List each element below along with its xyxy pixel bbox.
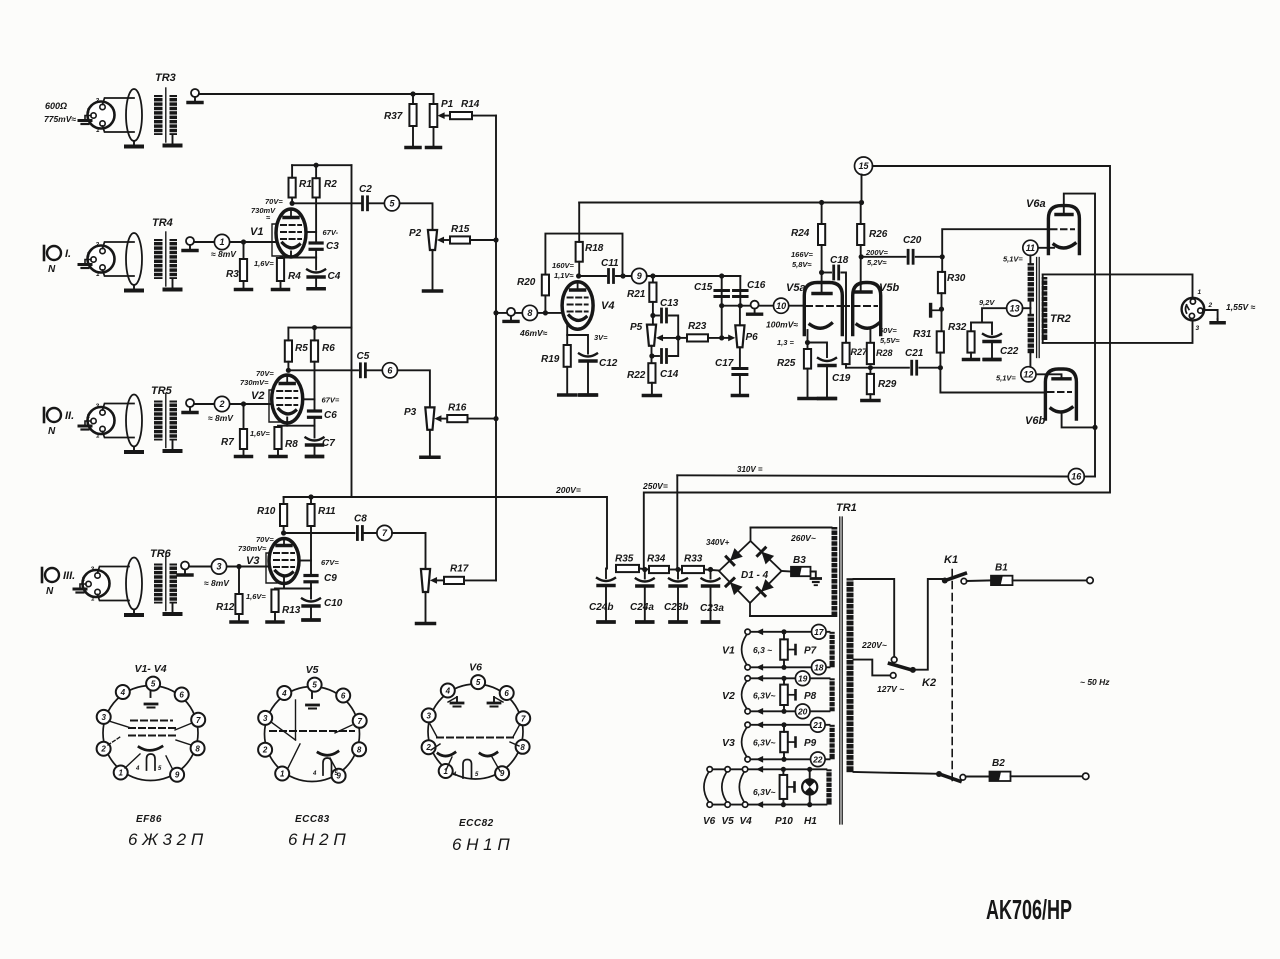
tube V5a [786,282,842,335]
potentiometer P7 [780,639,816,659]
svg-text:730mV=: 730mV= [240,378,269,387]
svg-text:C15: C15 [694,282,713,293]
wire H1 leads [809,769,811,779]
wire V4 anode to C11 [579,275,606,277]
wire R5 top lead [287,328,289,341]
svg-text:R18: R18 [585,243,604,254]
arrow heater V2 top [756,675,763,682]
svg-text:C21: C21 [905,348,924,359]
wire R3 lead [243,242,245,259]
svg-text:R3: R3 [226,269,239,280]
svg-text:C23a: C23a [700,603,724,614]
transformer TR1 heater winding V3 [830,725,835,760]
wire V1 screen [306,231,317,233]
wire node9 rail [647,275,741,277]
capacitor C18 [830,255,849,279]
capacitor C4 [307,258,341,289]
wire V3 screen [299,560,312,562]
wire R21 leads [652,276,654,283]
svg-text:21: 21 [812,720,823,730]
svg-text:C18: C18 [830,255,849,266]
svg-text:R34: R34 [647,554,666,565]
svg-text:1,55V ≈: 1,55V ≈ [1226,302,1256,312]
wire R32 lead [970,323,972,332]
contact 127V [890,673,896,679]
svg-text:P6: P6 [746,332,759,343]
svg-text:~ 50 Hz: ~ 50 Hz [1080,677,1110,687]
svg-text:1: 1 [96,271,100,278]
wire node10 line [722,305,805,307]
wire 127V tap [854,660,891,676]
text 220V [861,640,887,650]
terminal with ground node10 [748,301,762,315]
text 8mV input I [211,249,237,259]
transformer TR2 core [1037,258,1040,358]
svg-text:100mV≈: 100mV≈ [766,320,798,330]
resistor R28 [867,343,893,364]
svg-text:3: 3 [1196,325,1200,332]
text 340V [706,538,730,547]
wire P6 top lead [739,306,741,326]
svg-text:1: 1 [280,770,285,779]
node 15 [855,157,873,175]
wire R37 bottom lead [412,126,414,147]
svg-text:K1: K1 [944,554,958,566]
wire node15 to 250V corner [644,166,1110,570]
grid dashes V5 link [843,305,877,307]
text TR1 [836,502,857,514]
text 166V V5a [791,250,814,269]
wiper P7 [788,645,796,654]
socket V5 ECC83 [258,664,367,783]
svg-text:250V=: 250V= [642,481,668,491]
svg-text:8: 8 [357,745,362,754]
svg-text:R28: R28 [876,348,893,358]
wire B+ rail V4 V5 [579,202,861,204]
node 19 [795,671,810,686]
svg-text:6: 6 [504,689,509,698]
svg-text:V6: V6 [469,662,482,674]
wire P9 bottom lead [783,752,785,759]
svg-text:19: 19 [798,673,808,683]
wire cathode feedback rail [846,367,909,369]
wire C5 to node6 [365,369,382,371]
svg-text:20: 20 [797,706,808,716]
wire V1 anode supply rail [292,164,351,166]
svg-text:3: 3 [96,98,100,105]
wire V6a cathode to node11 [1038,247,1054,249]
fuse B3 [791,555,811,576]
svg-text:67V=: 67V= [322,396,340,405]
svg-text:R13: R13 [282,605,301,616]
ground P2 [424,250,442,291]
wire R23 left lead [678,337,687,339]
arrow pilot bottom [756,801,763,808]
wire bridge to B3 [782,570,792,573]
text 6N1P [452,835,510,854]
wire R7 lead [243,404,245,429]
wire heater row V2 top [748,677,830,679]
potentiometer P9 [780,732,816,752]
resistor R21 [627,283,657,302]
wire TR3 secondary to R37 node [199,93,413,95]
text 46mV [519,328,548,338]
text 67V V3 screen [321,558,339,567]
wiper P6 [723,335,736,342]
svg-text:10: 10 [776,301,786,311]
wire P7 top lead [783,632,785,640]
junction R6 top [312,325,317,330]
svg-text:15: 15 [858,161,869,171]
svg-text:C2: C2 [359,184,372,195]
cathode V5a [810,324,832,329]
wire C15 bottom to R23 [721,306,723,338]
junction V1 anode [290,201,295,206]
terminal heater V3 bottom [745,757,750,762]
wire 220V tap [854,579,895,657]
svg-text:4: 4 [445,686,451,695]
shield box V3 [266,553,277,583]
svg-text:1,1V≈: 1,1V≈ [554,271,574,280]
wire P10 leads [782,769,784,775]
wire P9 top lead [783,725,785,732]
svg-text:260V~: 260V~ [790,533,816,543]
wire 310V line [677,475,1068,476]
svg-text:B2: B2 [992,758,1005,769]
junction V5a cathode [805,340,810,345]
wire C11 to node9 [616,275,632,277]
wire 310V down to C23b [676,475,678,569]
wire C17 to ground [739,375,741,396]
svg-text:6,3V~: 6,3V~ [753,690,775,700]
arrow heater V2 bottom [756,708,763,715]
svg-text:18: 18 [814,662,824,672]
junction bus R16 [493,416,498,421]
svg-text:V5a: V5a [786,282,806,294]
junction V4 anode [576,273,581,278]
text K2 [922,677,936,689]
node 8 [522,305,537,320]
tube V4 [562,282,614,330]
ground R25 [799,369,816,399]
text 50Hz [1080,677,1110,687]
wire C21 right lead [919,367,940,369]
text 70V V2 anode [256,369,274,378]
resistor R34 [647,554,669,574]
wire R10 top lead [283,497,285,504]
junction R30 top [940,254,945,259]
svg-text:1,6V=: 1,6V= [246,592,266,601]
wire R2 top lead [315,165,317,178]
junction H1 bottom [807,802,812,807]
wire TR2 secondary loop top [1043,274,1193,297]
wire R31 to V6b grid [940,353,1045,393]
wire V2 anode to C5 [288,369,358,371]
switch K1 lever [942,573,967,584]
svg-text:N: N [48,264,56,275]
svg-text:70V=: 70V= [256,535,274,544]
tube V1 [250,209,306,257]
wire cathode to C19 [808,343,828,358]
svg-text:730mV≈: 730mV≈ [238,544,267,553]
junction C16 node10 [738,303,743,308]
svg-text:46mV≈: 46mV≈ [519,328,548,338]
svg-text:V5b: V5b [879,282,899,294]
wire R18 top lead [578,203,580,242]
svg-text:TR1: TR1 [836,502,857,514]
wire heater row V2 bottom [748,710,830,712]
wire C13 right lead [669,316,678,338]
wire H1 bottom lead [809,795,811,805]
svg-text:C12: C12 [599,358,618,369]
wire R17 to bus [464,579,496,581]
ground P4 [417,592,435,624]
tube V3 [246,539,299,584]
svg-text:340V+: 340V+ [706,538,730,547]
svg-text:9: 9 [637,271,642,281]
svg-text:P5: P5 [630,322,643,333]
svg-text:R26: R26 [869,229,888,240]
wire V2 cathode stem [286,418,288,426]
cathode V6b [1051,408,1072,413]
resistor R3 [226,259,247,281]
svg-text:P9: P9 [804,738,817,749]
connector XLR input I [79,242,134,279]
resistor R16 [447,403,467,423]
transformer TR1 pilot winding [826,769,831,804]
svg-text:V3: V3 [722,737,735,749]
svg-text:C10: C10 [324,598,343,609]
svg-text:V2: V2 [722,690,735,702]
svg-text:4: 4 [312,771,317,777]
text 6,3V pilot [753,787,775,797]
text 3V V4 cathode [594,333,608,342]
junction R3 top [241,239,246,244]
capacitor C17 [715,358,747,375]
svg-text:ECC82: ECC82 [459,818,494,829]
ground C23b [670,620,686,624]
cathode V5b [857,324,879,329]
ground R32 [964,353,979,360]
resistor R35 [615,554,639,573]
svg-text:2: 2 [86,108,91,115]
wire P5 to R22 [651,346,653,363]
svg-text:C24a: C24a [630,602,654,613]
svg-text:R29: R29 [878,379,897,390]
svg-text:AK706/HP: AK706/HP [986,894,1072,925]
text K1 [944,554,958,566]
svg-text:R32: R32 [948,322,967,333]
wire B1 to terminal [1013,579,1087,581]
ground R19 [559,367,576,395]
svg-text:R1: R1 [299,179,312,190]
wire R27 bottom lead [845,364,847,368]
junction P7 top [781,629,786,634]
text 8mV input III [204,578,230,588]
wire 200V rail [284,497,607,569]
lamp H1 [802,779,817,794]
svg-text:166V=: 166V= [791,250,814,259]
svg-text:R10: R10 [257,506,276,517]
wire V4 cathode split [567,324,588,354]
anode V6b [1053,377,1070,380]
svg-text:5: 5 [151,680,156,689]
resistor R6 [311,340,335,361]
svg-text:4: 4 [452,772,457,778]
svg-text:V2: V2 [251,390,264,402]
arrow heater V3 top [756,721,763,728]
transformer TR6 [126,548,181,615]
svg-text:V1- V4: V1- V4 [134,663,166,675]
svg-text:ECC83: ECC83 [295,814,330,825]
svg-text:R19: R19 [541,354,560,365]
wiper P8 [788,690,796,699]
svg-text:127V ~: 127V ~ [877,684,904,694]
ground P3 [421,430,439,457]
svg-text:70V=: 70V= [256,369,274,378]
svg-text:8: 8 [527,308,532,318]
wire P8 top lead [783,678,785,684]
transformer TR2 primary [1028,263,1071,367]
wire C8 to node7 [362,532,377,534]
text 70V V1 anode [265,197,283,206]
wire R24 top lead [821,203,823,225]
wire V2 cathode [278,425,315,427]
resistor R17 [444,564,469,585]
svg-text:V6a: V6a [1026,198,1046,210]
wire B2 to terminal [1011,775,1083,777]
terminal B1 [1087,577,1093,583]
wire node13 to winding [1023,307,1031,309]
ground R37 [406,147,420,148]
text 6,3V V3 [753,738,775,748]
wire TR2 secondary loop bottom [1043,320,1193,343]
wire P8 bottom lead [783,705,785,711]
svg-text:B1: B1 [995,563,1008,574]
ground R8 [270,449,286,457]
text 5,1V node12 [996,374,1016,383]
svg-text:C7: C7 [322,438,335,449]
junction R23 left [676,335,681,340]
wire P1 bottom lead [433,127,435,147]
potentiometer P8 [780,685,816,705]
contact 220V [891,657,897,663]
junction R28 bottom [868,365,873,370]
svg-text:≈ 8mV: ≈ 8mV [204,578,230,588]
wire node7 to P4 [392,533,425,569]
wire C15 branch [721,276,723,306]
svg-text:C5: C5 [357,351,370,362]
junction V6b cathode bus [1092,425,1097,430]
shield box V1 [272,224,283,256]
microphone input II symbol [44,408,74,437]
resistor R7 [221,429,247,449]
wire R11 to screen and C9 [310,526,312,575]
node 1 [214,234,229,249]
svg-text:C19: C19 [832,373,851,384]
node 2 [214,396,229,411]
capacitor C21 [905,348,924,374]
svg-text:V1: V1 [250,226,263,238]
svg-text:P7: P7 [804,646,817,657]
socket V6 ECC82 [422,662,531,781]
wire C14 left lead [652,355,659,357]
wire heater row V1 bottom [748,666,830,668]
svg-text:C14: C14 [660,369,679,380]
svg-text:3: 3 [263,714,268,723]
svg-text:2: 2 [100,745,106,754]
resistor R12 [216,594,243,614]
wire B2 lever to fuse [966,776,990,778]
svg-text:TR4: TR4 [152,217,173,229]
svg-text:R7: R7 [221,437,234,448]
transformer TR5 [126,385,181,452]
wire V1 anode to C2 [292,202,361,204]
svg-text:R14: R14 [461,99,480,110]
svg-text:C24b: C24b [589,602,613,613]
text EF86 [136,814,162,825]
junction V2 anode [286,368,291,373]
capacitor C10 [302,589,343,621]
svg-text:R2: R2 [324,179,337,190]
ground output [1211,319,1224,323]
text 1,6V V2 cathode [250,429,270,438]
wire V3 cathode stem [283,578,285,589]
svg-text:6,3 ~: 6,3 ~ [753,645,772,655]
wire K2 to K1 [913,579,945,670]
junction bus R15 [493,237,498,242]
transformer TR3 [126,72,181,147]
svg-text:C16: C16 [747,280,766,291]
arrow heater V1 top [756,628,763,635]
junction R20 bottom [543,310,548,315]
ground R13 [267,612,283,622]
junction P8 top [781,676,786,681]
terminal with ground TR4 output [183,237,197,251]
resistor R27 [842,343,868,364]
text 250V rail [642,481,668,491]
svg-text:N: N [46,586,54,597]
svg-text:R24: R24 [791,228,810,239]
wire R23 right lead [708,337,723,339]
wire V1 cathode stem [290,252,292,258]
wire K1 to B1 [967,579,991,582]
svg-text:2: 2 [81,576,86,583]
junction R24 top [819,200,824,205]
terminal heater V1 top [745,629,750,634]
junction H1 top [807,767,812,772]
text title AK706/HP [986,894,1072,925]
bracket heater V3 [722,728,746,756]
capacitor C22 [983,323,1019,360]
text 8mV input II [208,413,234,423]
wire V1 cathode [281,257,317,259]
text 5,1V node11 [1003,255,1023,264]
text 160V V4 [552,261,575,280]
wire V5a cathode stem [807,330,809,343]
capacitor C6 [309,410,338,421]
svg-text:K2: K2 [922,677,936,689]
svg-text:P1: P1 [441,99,454,110]
wire C20 to V6a grid [916,229,1049,257]
svg-text:3: 3 [91,566,95,573]
tube V2 [251,375,303,423]
svg-text:P3: P3 [404,407,417,418]
fuse B2 [990,758,1011,781]
ground C19 [819,397,836,401]
wire R18 bottom lead [578,262,580,276]
chassis ground B3 [811,579,821,586]
